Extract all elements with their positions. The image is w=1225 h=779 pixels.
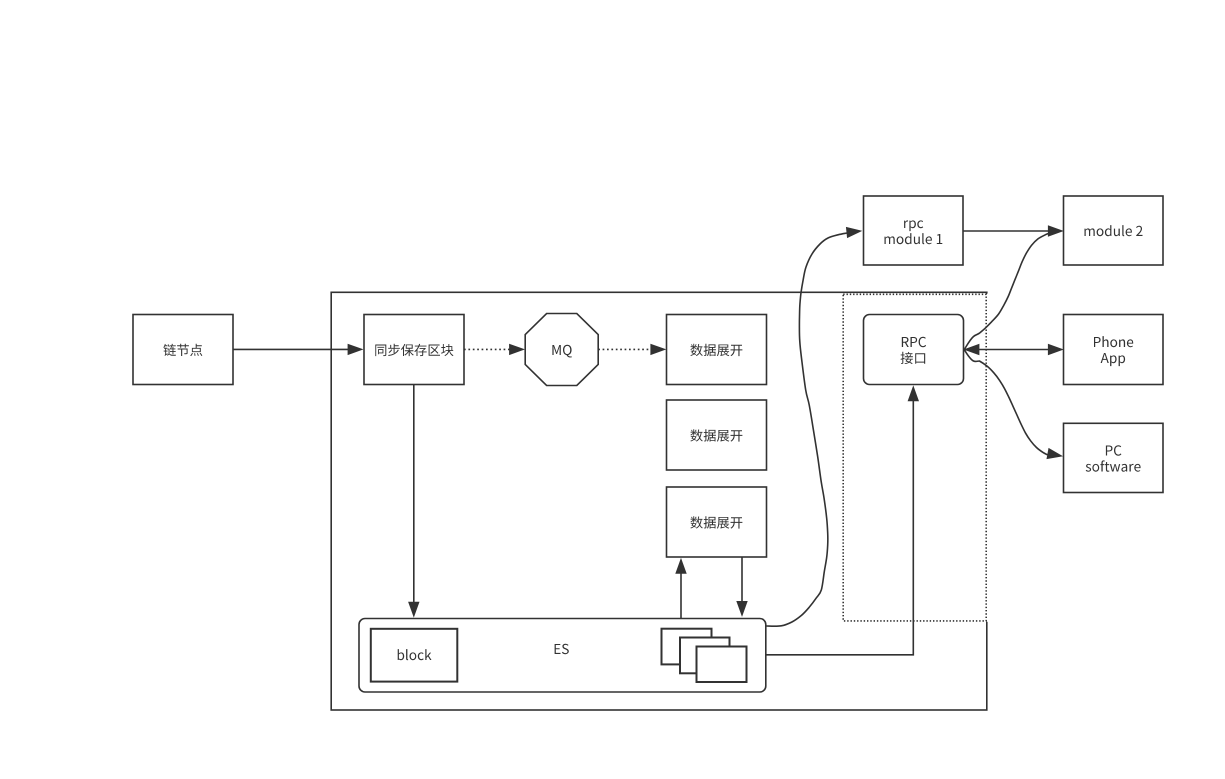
container group box <box>331 292 987 710</box>
eraser for container edge under dotted rect <box>986 294 989 622</box>
label Phone App <box>1094 336 1133 366</box>
curved arrow RPC 接口 to PC software <box>964 350 1061 459</box>
dotted group rect <box>843 294 986 621</box>
label ES <box>555 644 569 654</box>
label 同步保存区块 <box>375 344 453 356</box>
label 数据展开 1 <box>690 344 742 356</box>
box 数据展开 2 <box>667 400 767 470</box>
arrow 链节点 to 同步保存区块 <box>233 344 362 354</box>
label block <box>398 649 432 660</box>
arrow RPC 接口 to Phone App <box>964 345 1063 355</box>
curved arrow ES to rpc module 1 <box>767 228 861 627</box>
label 链节点 <box>163 344 202 356</box>
box 数据展开 3 <box>667 487 767 557</box>
box Phone App <box>1064 315 1164 385</box>
box 链节点 <box>133 315 233 385</box>
arrow ES up to 数据展开 3 <box>676 559 686 618</box>
label rpc module 1 <box>885 220 943 244</box>
arrow 同步保存区块 down to ES <box>409 385 419 617</box>
wire ES to RPC 接口 <box>766 387 918 655</box>
box PC software <box>1064 423 1164 492</box>
arrow 数据展开 3 down to ES <box>737 557 747 615</box>
box block <box>371 629 458 682</box>
dotted arrow MQ to 数据展开 <box>598 344 665 354</box>
arrowhead into RPC 接口 from Phone App line <box>965 345 979 355</box>
box module 2 <box>1064 196 1164 265</box>
dotted arrow 同步保存区块 to MQ <box>464 344 524 354</box>
box ES <box>359 619 766 693</box>
label PC software <box>1086 445 1141 471</box>
label 数据展开 3 <box>690 516 742 528</box>
arrow rpc module 1 to module 2 <box>963 226 1062 236</box>
box 数据展开 1 <box>667 315 767 385</box>
label RPC 接口 <box>901 337 927 364</box>
box RPC 接口 <box>864 315 964 385</box>
label MQ <box>552 345 571 358</box>
label 数据展开 2 <box>690 429 742 441</box>
label module 2 <box>1085 225 1143 236</box>
curved arrow RPC 接口 to module 2 <box>964 233 1049 350</box>
octagon MQ <box>525 314 598 386</box>
box 同步保存区块 <box>364 315 464 385</box>
papers icon <box>662 629 747 682</box>
box rpc module 1 <box>864 196 964 265</box>
